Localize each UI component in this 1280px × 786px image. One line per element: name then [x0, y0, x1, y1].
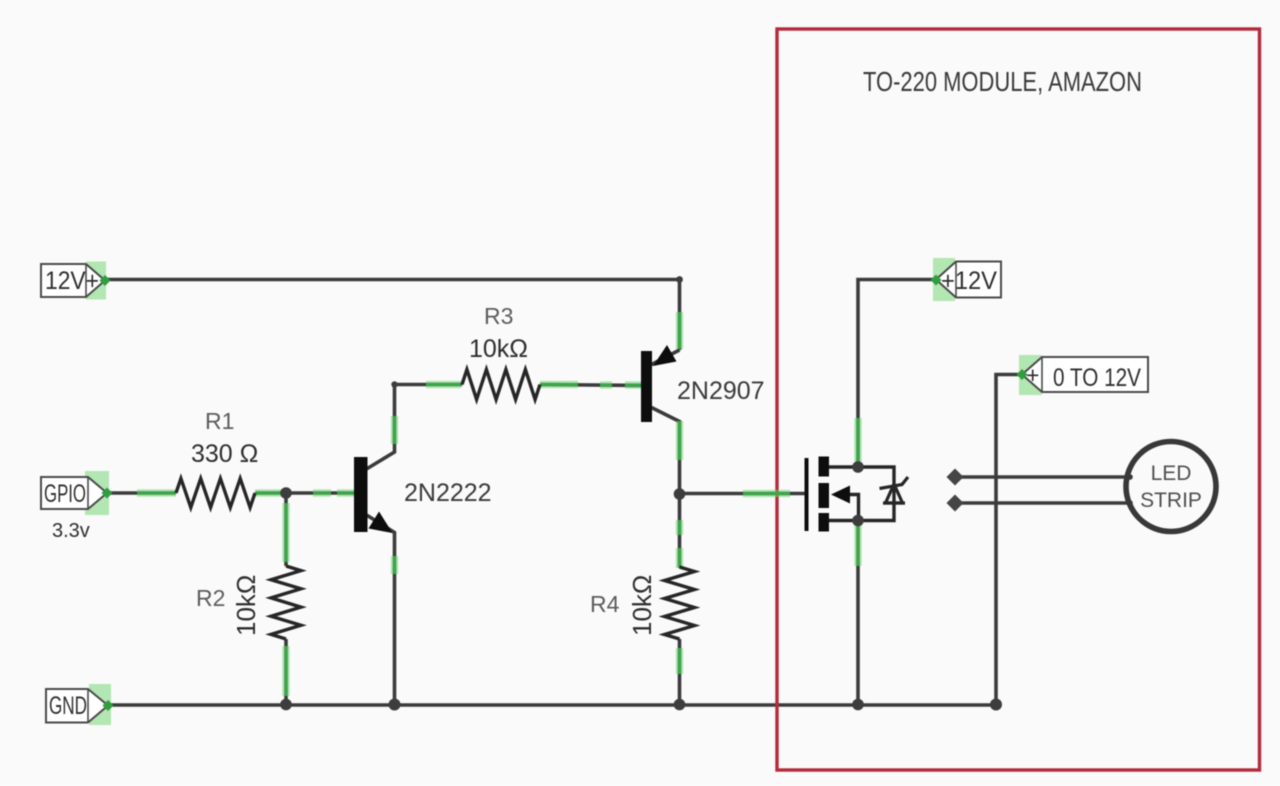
transistor Q1 2N2222	[354, 457, 492, 533]
svg-text:R1: R1	[205, 408, 234, 434]
LED strip terminal pins	[1127, 474, 1133, 480]
svg-text:LED: LED	[1151, 462, 1192, 485]
svg-text:2N2907: 2N2907	[677, 377, 765, 405]
wire LED strip + lead	[955, 475, 1129, 479]
svg-text:10kΩ: 10kΩ	[231, 575, 261, 636]
drain stub	[829, 465, 858, 468]
terminal +12V (module side)	[931, 258, 1002, 301]
svg-text:GND: GND	[49, 692, 87, 720]
terminal diamond - lead of LED strip	[947, 495, 964, 512]
wire GPIO to R1	[107, 491, 176, 495]
corner dot at Q1 collector bend	[391, 381, 397, 387]
green highlight halo	[137, 312, 858, 696]
wire LED strip - lead	[955, 501, 1129, 505]
svg-text:12V+: 12V+	[45, 267, 99, 295]
body diode triangle	[883, 501, 905, 504]
junction R2 to ground rail	[280, 699, 292, 711]
MOSFET Q3	[807, 457, 909, 532]
svg-text:10kΩ: 10kΩ	[469, 335, 528, 363]
wire R1 to node A	[255, 491, 354, 495]
corner dot at top rail bend	[676, 276, 683, 283]
svg-text:R4: R4	[590, 591, 620, 617]
terminal diamond + lead of LED strip	[947, 469, 964, 486]
svg-text:STRIP: STRIP	[1140, 489, 1202, 512]
wire Q1 emitter down to ground rail	[367, 515, 395, 704]
resistor R3	[462, 370, 540, 400]
body arrow	[831, 486, 850, 504]
wire 12V+ top rail	[105, 280, 680, 351]
junction load return to ground rail	[990, 699, 1002, 711]
junction MOSFET source node	[852, 515, 864, 527]
LED strip circle	[1126, 442, 1216, 532]
svg-text:0 TO 12V: 0 TO 12V	[1053, 364, 1141, 392]
svg-text:+: +	[1026, 362, 1039, 388]
terminal + 0 TO 12V (module output)	[1017, 355, 1149, 395]
wire Q1 collector up to R3	[367, 385, 463, 470]
wire drain node to MOSFET gate	[680, 492, 806, 496]
resistor R1	[176, 479, 255, 508]
wire +12V branch to MOSFET drain	[858, 280, 934, 468]
junction node A (R1/R2/Q1 base)	[280, 487, 292, 499]
wire R3 to Q2 base	[540, 385, 641, 386]
svg-text:330 Ω: 330 Ω	[191, 440, 258, 468]
body diode loop	[858, 467, 894, 521]
body diode cathode bar (zener style)	[880, 477, 909, 489]
resistor R4	[665, 567, 695, 639]
svg-text:R3: R3	[484, 303, 513, 329]
junction node B (Q2 collector/R4/gate)	[674, 488, 686, 500]
svg-text:+12V: +12V	[941, 267, 997, 295]
wire Q2 collector down through R4 to ground rail	[652, 408, 680, 568]
terminal GND	[46, 684, 114, 725]
svg-text:3.3v: 3.3v	[52, 520, 90, 542]
svg-text:2N2222: 2N2222	[404, 479, 492, 507]
red module outline	[777, 29, 1260, 770]
junction MOSFET drain node	[852, 461, 864, 473]
terminal GPIO 3.3v	[41, 471, 113, 542]
wire ground rail	[108, 703, 996, 707]
resistor R2	[271, 566, 301, 639]
source stub	[829, 519, 858, 522]
svg-text:GPIO: GPIO	[44, 480, 86, 508]
junction MOSFET source to ground rail	[852, 699, 864, 711]
junction Q1 emitter to ground rail	[389, 699, 401, 711]
transistor Q2 2N2907	[641, 345, 765, 422]
gate bar	[805, 458, 809, 531]
svg-text:R2: R2	[196, 585, 225, 611]
wire MOSFET source to ground rail	[856, 521, 860, 705]
svg-text:10kΩ: 10kΩ	[627, 575, 657, 636]
channel bars	[819, 457, 830, 477]
wire node A through R2 to ground rail	[284, 493, 288, 566]
wire load vertical from 0-12V label to ground rail	[996, 375, 1022, 705]
wire Q2 emitter diagonal	[652, 350, 680, 365]
terminal 12V+	[41, 262, 111, 300]
junction R4 to ground rail	[674, 699, 686, 711]
svg-text:TO-220 MODULE, AMAZON: TO-220 MODULE, AMAZON	[863, 66, 1142, 97]
green highlight core	[137, 312, 858, 696]
